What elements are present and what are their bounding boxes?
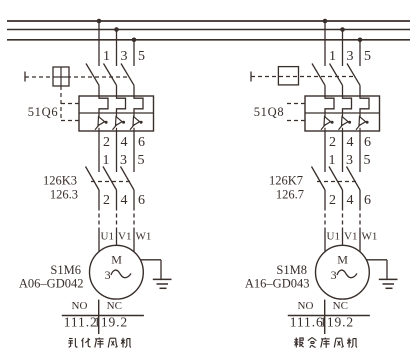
svg-text:M: M xyxy=(111,252,122,266)
magnetic trip element pole 3 (51Q6) xyxy=(130,113,143,131)
dashed motor cable core 1 xyxy=(98,207,100,230)
motor terminal wire V1 xyxy=(116,229,118,246)
thermal overload element pole 2 (51Q6) xyxy=(117,96,126,113)
dashed motor cable core 2 xyxy=(116,207,118,230)
wire: L1 drop to breaker 51Q6 pole 1 xyxy=(98,21,100,66)
svg-text:6: 6 xyxy=(138,193,145,208)
wire breaker to contactor pole 2 xyxy=(342,131,344,172)
svg-text:1: 1 xyxy=(329,153,336,168)
svg-text:6: 6 xyxy=(364,193,371,208)
svg-text:6: 6 xyxy=(364,135,371,150)
breaker 51Q6 box divider xyxy=(79,112,154,114)
svg-text:1: 1 xyxy=(329,49,336,64)
dashed motor cable core 3 xyxy=(133,207,135,230)
contactor 126K3 main contact pole 2 xyxy=(103,167,117,207)
breaker 51Q8 switch blade pole 1 xyxy=(312,64,325,97)
ground symbol xyxy=(379,279,398,288)
svg-text:51Q8: 51Q8 xyxy=(254,105,285,119)
label motor name (emulsion store fan) xyxy=(68,338,131,348)
svg-text:NO: NO xyxy=(298,300,314,312)
bus line L2 xyxy=(7,29,410,31)
node: bus L2 tap, circuit 2 xyxy=(340,27,345,32)
breaker 51Q8 box divider xyxy=(305,112,380,114)
svg-text:126K3: 126K3 xyxy=(43,173,77,187)
wire: L1 drop to breaker 51Q8 pole 1 xyxy=(324,21,326,66)
ground symbol xyxy=(153,279,172,288)
terminal labels 1 3 5 (breaker 51Q6 line side) xyxy=(103,49,145,64)
contactor 126K3 main contact pole 3 xyxy=(121,167,135,207)
node: bus L3 tap, circuit 2 xyxy=(358,38,363,43)
dashed linkage contactor 126K7 xyxy=(317,181,359,183)
NO/NC table rule xyxy=(62,315,144,317)
node: bus L2 tap, circuit 1 xyxy=(114,27,119,32)
svg-text:119.2: 119.2 xyxy=(94,315,128,330)
svg-text:111.2: 111.2 xyxy=(64,315,98,330)
svg-text:A06–GD042: A06–GD042 xyxy=(19,276,84,290)
svg-text:2: 2 xyxy=(329,135,336,150)
bus line L1 xyxy=(7,20,410,22)
contactor 126K3 main contact pole 1 xyxy=(86,167,100,207)
motor 3-phase symbol xyxy=(331,268,357,282)
svg-text:119.2: 119.2 xyxy=(320,315,354,330)
thermal overload element pole 3 (51Q8) xyxy=(360,96,369,113)
svg-text:NC: NC xyxy=(107,300,122,312)
svg-text:2: 2 xyxy=(103,193,110,208)
magnetic trip element pole 3 (51Q8) xyxy=(356,113,369,131)
wire breaker to contactor pole 3 xyxy=(359,131,361,172)
svg-text:S1M8: S1M8 xyxy=(276,263,307,277)
svg-text:4: 4 xyxy=(347,193,354,208)
svg-text:5: 5 xyxy=(138,49,145,64)
thermal overload element pole 1 (51Q6) xyxy=(99,96,108,113)
svg-text:4: 4 xyxy=(347,135,354,150)
svg-text:U1: U1 xyxy=(327,231,340,243)
breaker 51Q8 switch blade pole 3 xyxy=(347,64,360,97)
dashed motor cable core 1 xyxy=(324,207,326,230)
svg-text:W1: W1 xyxy=(136,231,152,243)
terminal labels 2 4 6 (breaker 51Q8 load side) xyxy=(329,135,371,150)
motor terminal wire W1 xyxy=(133,229,135,252)
node: bus L1 tap, circuit 1 xyxy=(97,19,102,24)
wire: L3 drop to breaker 51Q8 pole 3 xyxy=(359,40,361,66)
svg-text:126K7: 126K7 xyxy=(269,173,303,187)
wire breaker to contactor pole 2 xyxy=(116,131,118,172)
operating mechanism box, breaker 51Q8 xyxy=(278,67,298,85)
svg-text:3: 3 xyxy=(346,153,353,168)
svg-text:6: 6 xyxy=(138,135,145,150)
svg-text:126.3: 126.3 xyxy=(50,188,78,202)
NO/NC table divider xyxy=(324,300,326,334)
wire breaker to contactor pole 1 xyxy=(324,131,326,172)
svg-text:A16–GD043: A16–GD043 xyxy=(245,276,310,290)
dashed motor cable core 2 xyxy=(342,207,344,230)
svg-text:5: 5 xyxy=(138,153,145,168)
motor S1M8 circle xyxy=(316,245,370,299)
svg-text:2: 2 xyxy=(103,135,110,150)
motor terminal labels U1 V1 W1 xyxy=(101,231,152,243)
wire: L3 drop to breaker 51Q6 pole 3 xyxy=(133,40,135,66)
motor S1M6 circle xyxy=(90,245,144,299)
svg-text:V1: V1 xyxy=(118,231,131,243)
magnetic trip element pole 2 (51Q6) xyxy=(113,113,126,131)
contactor 126K7 main contact pole 3 xyxy=(347,167,361,207)
dashed mechanical linkage, breaker 51Q6 xyxy=(25,76,129,78)
motor 3-phase symbol xyxy=(105,268,131,282)
dashed linkage contactor 126K3 xyxy=(91,181,133,183)
dashed trip link stub lower xyxy=(61,120,79,122)
wire: L2 drop to breaker 51Q6 pole 2 xyxy=(116,30,118,67)
svg-text:NC: NC xyxy=(333,300,348,312)
svg-text:3: 3 xyxy=(331,268,337,282)
thermal overload element pole 2 (51Q8) xyxy=(343,96,352,113)
svg-text:3: 3 xyxy=(105,268,111,282)
magnetic trip element pole 1 (51Q6) xyxy=(95,113,108,131)
svg-text:5: 5 xyxy=(364,153,371,168)
terminal labels 1 3 5 (contactor 126K3 line side) xyxy=(103,153,145,168)
wire motor frame to earth xyxy=(140,260,161,280)
motor terminal wire W1 xyxy=(359,229,361,252)
motor terminal labels U1 V1 W1 xyxy=(327,231,378,243)
contactor 126K7 main contact pole 2 xyxy=(329,167,343,207)
svg-text:S1M6: S1M6 xyxy=(50,263,81,277)
wire breaker to contactor pole 3 xyxy=(133,131,135,172)
svg-text:126.7: 126.7 xyxy=(276,188,304,202)
svg-text:111.6: 111.6 xyxy=(290,315,324,330)
svg-text:51Q6: 51Q6 xyxy=(28,105,59,119)
svg-text:4: 4 xyxy=(121,135,128,150)
magnetic trip element pole 2 (51Q8) xyxy=(339,113,352,131)
dashed trip link stub upper xyxy=(287,103,305,105)
terminal labels 2 4 6 (breaker 51Q6 load side) xyxy=(103,135,145,150)
breaker 51Q8 trip-unit box xyxy=(305,96,380,131)
contactor 126K7 main contact pole 1 xyxy=(312,167,326,207)
svg-text:NO: NO xyxy=(72,300,88,312)
svg-text:M: M xyxy=(337,252,348,266)
breaker 51Q6 switch blade pole 1 xyxy=(86,64,99,97)
NO/NC table divider xyxy=(98,300,100,334)
svg-text:3: 3 xyxy=(347,49,354,64)
svg-text:5: 5 xyxy=(364,49,371,64)
svg-text:4: 4 xyxy=(121,193,128,208)
breaker 51Q6 switch blade pole 2 xyxy=(104,64,117,97)
thermal overload element pole 3 (51Q6) xyxy=(134,96,143,113)
dashed trip link stub lower xyxy=(287,120,305,122)
wire breaker to contactor pole 1 xyxy=(98,131,100,172)
motor terminal wire V1 xyxy=(342,229,344,246)
breaker 51Q6 trip-unit box xyxy=(79,96,154,131)
svg-text:W1: W1 xyxy=(362,231,378,243)
terminal labels 1 3 5 (breaker 51Q8 line side) xyxy=(329,49,371,64)
node: bus L3 tap, circuit 1 xyxy=(132,38,137,43)
svg-text:3: 3 xyxy=(121,49,128,64)
wire: L2 drop to breaker 51Q8 pole 2 xyxy=(342,30,344,67)
wire motor frame to earth xyxy=(366,260,387,280)
dashed trip link vertical, breaker 51Q6 xyxy=(60,86,62,121)
terminal labels 2 4 6 (contactor 126K3 load side) xyxy=(103,193,145,208)
operating mechanism box (X), breaker 51Q6 xyxy=(53,67,69,86)
terminal labels 1 3 5 (contactor 126K7 line side) xyxy=(329,153,371,168)
dashed trip link stub upper xyxy=(61,103,79,105)
svg-text:1: 1 xyxy=(103,153,110,168)
operating handle tick, breaker 51Q6 xyxy=(24,72,26,82)
thermal overload element pole 1 (51Q8) xyxy=(325,96,334,113)
motor terminal wire U1 xyxy=(324,229,326,252)
bus line L3 xyxy=(7,39,410,41)
motor terminal wire U1 xyxy=(98,229,100,252)
dashed mechanical linkage, breaker 51Q8 xyxy=(251,76,355,78)
svg-text:3: 3 xyxy=(120,153,127,168)
svg-text:V1: V1 xyxy=(344,231,357,243)
breaker 51Q6 switch blade pole 3 xyxy=(121,64,134,97)
terminal labels 2 4 6 (contactor 126K7 load side) xyxy=(329,193,371,208)
dashed motor cable core 3 xyxy=(359,207,361,230)
node: bus L1 tap, circuit 2 xyxy=(323,19,328,24)
label motor name (grain store fan) xyxy=(294,337,357,347)
magnetic trip element pole 1 (51Q8) xyxy=(321,113,334,131)
NO/NC table rule xyxy=(288,315,370,317)
svg-text:U1: U1 xyxy=(101,231,114,243)
operating handle tick, breaker 51Q8 xyxy=(250,72,252,82)
breaker 51Q8 switch blade pole 2 xyxy=(330,64,343,97)
svg-text:2: 2 xyxy=(329,193,336,208)
svg-text:1: 1 xyxy=(103,49,110,64)
